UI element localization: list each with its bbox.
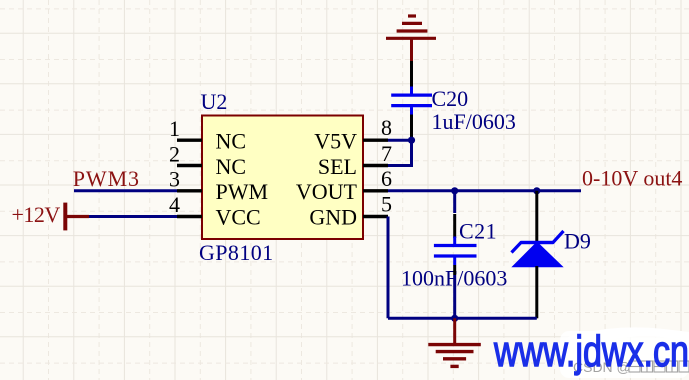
svg-text:SEL: SEL [318, 154, 357, 179]
pin 2 NC [169, 141, 246, 179]
svg-text:VOUT: VOUT [296, 179, 358, 204]
svg-text:PWM3: PWM3 [73, 166, 140, 191]
diode D9 zener [511, 231, 563, 267]
pin 5 GND [309, 192, 392, 230]
svg-text:3: 3 [169, 167, 180, 192]
pin C21 top [453, 214, 456, 238]
wire ground to C20 [410, 61, 413, 88]
wire pin6 output [388, 189, 581, 192]
junction bottom ground node [451, 315, 458, 322]
svg-text:GP8101: GP8101 [199, 240, 274, 265]
capacitor C21 [434, 237, 477, 266]
pin 7 SEL [318, 141, 392, 179]
svg-text:C21: C21 [459, 219, 497, 244]
svg-text:GND: GND [309, 205, 357, 230]
wire node to C21 [453, 191, 456, 213]
power port +12V [12, 202, 90, 230]
svg-text:PWM: PWM [216, 179, 269, 204]
pin C21 bottom [453, 265, 456, 275]
wire +12V to pin4 [89, 215, 177, 218]
svg-text:0-10V out4: 0-10V out4 [582, 166, 682, 191]
svg-text:5: 5 [381, 192, 392, 217]
wire node to pin8 [388, 139, 412, 142]
IC U2 body [202, 116, 363, 240]
wire C21 to bottom node [453, 275, 456, 318]
junction node pin8 [408, 137, 415, 144]
svg-text:D9: D9 [564, 229, 591, 254]
wire C20 to node [410, 115, 413, 141]
wire D9 to bottom [535, 266, 538, 318]
svg-text:6: 6 [381, 166, 392, 191]
capacitor C20 [391, 87, 432, 115]
svg-text:V5V: V5V [314, 129, 357, 154]
wire node to D9 anode top lead [535, 191, 538, 242]
watermark swoosh [556, 327, 689, 378]
svg-text:NC: NC [216, 129, 247, 154]
pin 8 V5V [314, 115, 392, 154]
svg-text:www.jdwx.cn: www.jdwx.cn [493, 327, 689, 376]
svg-text:U2: U2 [201, 89, 228, 114]
ground bottom [428, 318, 481, 366]
pin 6 VOUT [296, 166, 392, 204]
svg-text:7: 7 [381, 141, 392, 166]
watermark CSDN user [573, 359, 689, 375]
wire node to pin7 [388, 140, 412, 165]
svg-text:1uF/0603: 1uF/0603 [432, 109, 516, 134]
svg-text:8: 8 [381, 115, 392, 140]
svg-text:+12V: +12V [12, 202, 61, 227]
junction C21 top [451, 187, 458, 194]
pin 1 NC [169, 116, 246, 154]
svg-text:4: 4 [169, 192, 180, 217]
pin 4 VCC [169, 192, 261, 230]
junction D9 top [533, 187, 540, 194]
pin 3 PWM [169, 167, 268, 205]
wire pin5 down [387, 217, 390, 319]
wire PWM3 to pin3 [74, 189, 177, 192]
svg-text:C20: C20 [432, 86, 469, 111]
svg-text:1: 1 [169, 116, 180, 141]
svg-text:NC: NC [216, 154, 247, 179]
svg-text:VCC: VCC [216, 205, 261, 230]
ground top [386, 16, 436, 62]
svg-text:2: 2 [169, 141, 180, 166]
wire bottom rail [388, 317, 537, 320]
